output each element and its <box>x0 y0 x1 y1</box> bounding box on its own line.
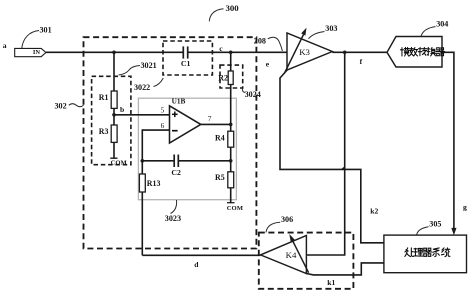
wire: R13 down to node d rail <box>141 192 143 255</box>
dashed box 302 (signal conditioning module) <box>84 37 257 248</box>
svg-text:R2: R2 <box>218 74 228 83</box>
label 208 <box>254 36 283 51</box>
glyph 处 <box>405 248 414 257</box>
wire: main rail from C1 right plate to K3 base <box>188 51 287 53</box>
label 3021 with leader <box>119 61 157 75</box>
resistor R2 <box>218 71 233 85</box>
capacitor C1 <box>181 46 191 68</box>
op-amp U1B <box>161 97 212 143</box>
label 3024 with leader <box>242 88 260 99</box>
svg-text:R4: R4 <box>215 134 225 143</box>
amplifier K4 <box>261 234 309 274</box>
dashed box 306 (K4 attenuator) <box>259 233 354 289</box>
wire: R1 to node b <box>113 108 115 114</box>
wire: R2 bottom to R4 top <box>230 85 232 132</box>
label 3023 with leader <box>165 200 181 223</box>
svg-text:COM: COM <box>111 159 128 166</box>
amplifier K3 <box>285 28 333 73</box>
wire: main input rail from IN to C1 left plate <box>46 51 183 53</box>
svg-text:208: 208 <box>254 36 266 45</box>
input terminal IN <box>15 48 46 56</box>
label 305 with leader <box>417 220 442 235</box>
svg-text:K4: K4 <box>286 250 297 260</box>
wire: node f down to K4 input <box>306 52 344 255</box>
wire: K3 output to ADC <box>332 51 387 53</box>
node b junction <box>112 113 116 117</box>
label 304 with leader <box>421 19 448 36</box>
svg-text:k2: k2 <box>370 207 378 216</box>
resistor R13 <box>139 174 160 192</box>
label 306 with leader <box>266 215 293 232</box>
dashed box 3024 (R2) <box>220 65 243 88</box>
resistor R3 <box>99 125 117 142</box>
gain arrow through K4 <box>291 238 309 273</box>
svg-text:k1: k1 <box>327 278 335 287</box>
resistor R5 <box>215 172 234 188</box>
node f junction <box>343 51 347 55</box>
node junction op-amp output <box>229 123 233 127</box>
ground COM under R5 <box>227 188 244 212</box>
wire: node b to R3 <box>113 115 115 125</box>
glyph 模 <box>400 47 409 56</box>
wire d: K4 output to R13 column <box>142 254 260 256</box>
ADC label text (模数转换器) hand-drawn strokes <box>400 47 444 56</box>
wire: R2 column from node c down through R4 area <box>230 52 232 71</box>
svg-text:5: 5 <box>161 106 165 115</box>
glyph 理 <box>414 248 423 256</box>
wire: K3 gain-control feedback down (k2 path) <box>280 70 384 243</box>
svg-text:306: 306 <box>281 215 293 224</box>
grey box 3023 (op-amp filter block) <box>138 98 236 200</box>
label 301 with leader <box>22 26 52 48</box>
svg-text:R13: R13 <box>147 179 161 188</box>
svg-text:3023: 3023 <box>165 214 181 223</box>
svg-text:6: 6 <box>161 121 165 130</box>
dashed box 3021 (R1/R3 divider) <box>92 76 131 164</box>
label 303 with leader <box>309 24 338 39</box>
ground COM under R3 <box>110 142 127 166</box>
svg-text:3022: 3022 <box>134 83 150 92</box>
wire: column down to R13 <box>141 161 143 174</box>
svg-text:U1B: U1B <box>172 97 186 106</box>
glyph 换 <box>427 47 436 55</box>
wire k1: processor to K4 gain control <box>306 263 384 275</box>
gain arrow through K3 <box>285 32 305 73</box>
resistor R1 <box>99 91 117 108</box>
svg-text:R3: R3 <box>99 127 109 136</box>
capacitor C2 <box>171 155 181 177</box>
dashed box 3022 (C1) <box>163 41 212 75</box>
svg-text:a: a <box>3 41 7 50</box>
glyph 器 <box>423 248 432 256</box>
svg-text:3021: 3021 <box>141 61 157 70</box>
label 300 with leader <box>209 3 239 22</box>
wire: node b to op-amp pin 5 <box>114 114 170 116</box>
svg-text:305: 305 <box>429 220 441 229</box>
label 302 with squiggle leader <box>55 101 84 110</box>
ADC block (pentagon) 304 <box>387 37 442 68</box>
wire: op-amp pin 6 feedback to left column <box>142 130 169 161</box>
svg-text:g: g <box>463 203 467 212</box>
svg-text:R1: R1 <box>99 93 109 102</box>
arrowhead into processor <box>451 228 456 235</box>
svg-text:K3: K3 <box>299 47 310 57</box>
processor system box 305 <box>384 235 467 273</box>
glyph 数 <box>409 47 417 55</box>
svg-text:302: 302 <box>55 101 67 110</box>
node junction C2 left <box>141 159 145 163</box>
svg-text:3024: 3024 <box>245 90 261 99</box>
svg-text:7: 7 <box>208 114 212 123</box>
node junction R4/R5/C2 <box>229 159 233 163</box>
wire: R4 to R5 <box>230 147 232 172</box>
svg-text:R5: R5 <box>215 173 225 182</box>
glyph 器 <box>436 48 444 56</box>
svg-text:304: 304 <box>436 19 448 28</box>
resistor R4 <box>215 131 234 147</box>
svg-text:301: 301 <box>40 26 52 35</box>
svg-text:300: 300 <box>226 3 240 13</box>
node c junction <box>229 51 233 55</box>
processor label text (处理器系统) hand-drawn strokes <box>405 248 450 257</box>
wire: R1 column drop from main rail <box>113 52 115 91</box>
svg-text:b: b <box>120 105 124 114</box>
node junction at R1 top <box>112 51 116 55</box>
label 3022 with leader <box>134 78 163 92</box>
wire: op-amp output pin 7 to R4 column <box>201 123 231 125</box>
wire: C2 link from left column to R4/R5 junction <box>142 160 174 162</box>
svg-text:IN: IN <box>33 49 40 56</box>
svg-text:COM: COM <box>227 205 244 212</box>
svg-text:303: 303 <box>325 24 337 33</box>
glyph 统 <box>441 248 449 257</box>
crossover hop at f-vertical <box>342 167 345 169</box>
glyph 系 <box>433 248 440 257</box>
wire g: ADC output to processor <box>442 52 454 230</box>
svg-text:C1: C1 <box>181 59 191 68</box>
svg-text:C2: C2 <box>171 168 181 177</box>
glyph 转 <box>418 47 427 55</box>
